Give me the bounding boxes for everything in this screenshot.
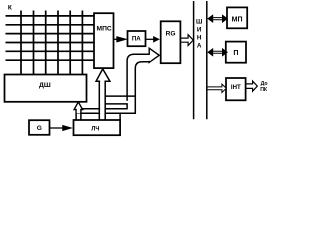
svg-text:К: К: [8, 5, 12, 12]
svg-text:ДШ: ДШ: [39, 82, 51, 89]
svg-text:Н: Н: [197, 35, 202, 42]
svg-text:Ш: Ш: [196, 19, 202, 26]
svg-text:RG: RG: [166, 31, 176, 38]
svg-text:ЛЧ: ЛЧ: [91, 125, 99, 132]
svg-text:МПС: МПС: [97, 25, 112, 32]
svg-text:ІНТ: ІНТ: [231, 84, 241, 91]
svg-text:А: А: [197, 43, 202, 50]
svg-text:И: И: [197, 27, 202, 34]
svg-text:П: П: [233, 50, 238, 57]
svg-text:G: G: [37, 125, 42, 132]
svg-text:МП: МП: [232, 17, 243, 24]
svg-text:ПК: ПК: [260, 87, 268, 93]
svg-text:ПА: ПА: [132, 35, 141, 42]
